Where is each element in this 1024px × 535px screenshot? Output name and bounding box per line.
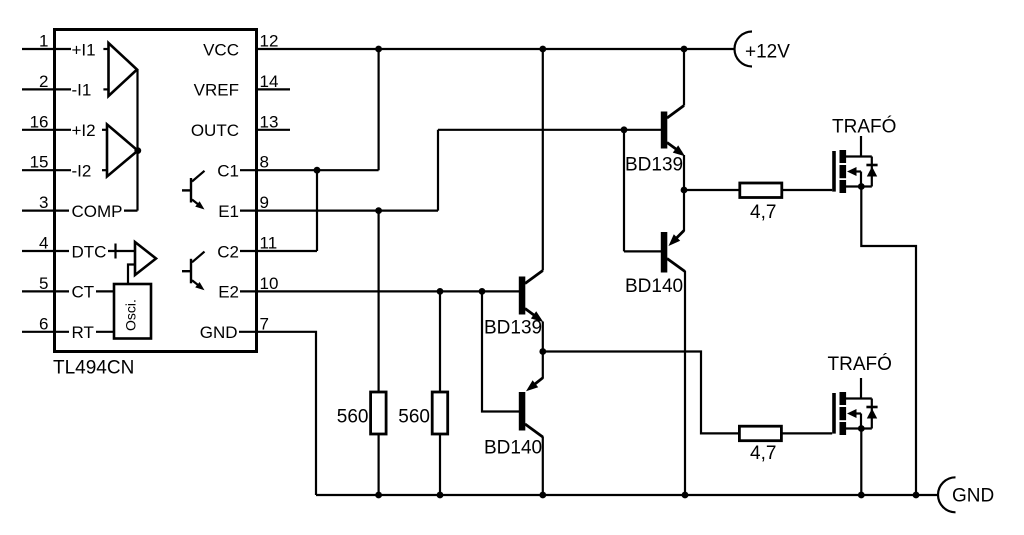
svg-text:GND: GND	[952, 485, 994, 506]
pin 4 wire (DTC)	[22, 250, 135, 252]
transistor Q6 BD140 (upper pair)	[661, 231, 685, 273]
junction E2 / lower base	[479, 288, 486, 295]
svg-text:15: 15	[30, 153, 49, 172]
junction E1 / R1	[375, 207, 382, 214]
wire lower BD140 base drop	[482, 291, 519, 411]
junction VCC / Q5 collector	[681, 46, 688, 53]
ground terminal GND	[938, 477, 956, 512]
pin 15 wire (-I2)	[22, 169, 71, 171]
svg-text:BD139: BD139	[484, 317, 542, 338]
transistor Q1 internal (C1/E1)	[182, 171, 205, 210]
junction E2 / R2	[437, 288, 444, 295]
pin 2 wire (-I1)	[22, 88, 71, 90]
wire pin 9 (E1)	[240, 210, 438, 212]
wire pin 7 (GND) to rail	[239, 332, 316, 495]
wire oscillator to DTC buffer	[128, 265, 135, 285]
svg-text:9: 9	[260, 193, 269, 212]
wire E1 riser	[437, 130, 439, 211]
pin 14 stub wire	[257, 88, 291, 90]
svg-text:14: 14	[260, 72, 279, 91]
wire pin 10 (E2)	[240, 290, 519, 292]
svg-text:-I1: -I1	[72, 81, 92, 100]
wire C2 tie vertical	[316, 170, 318, 251]
pin label CT	[69, 284, 96, 300]
svg-text:VREF: VREF	[194, 81, 239, 100]
DTC input tick bar	[114, 244, 116, 259]
wire Q4 collector to rail	[542, 437, 544, 496]
error amplifier 1	[109, 43, 138, 96]
junction C1/C2 tie	[314, 167, 321, 174]
svg-text:560: 560	[337, 406, 369, 427]
body diode M2	[867, 409, 877, 419]
op-amp U1 IC body TL494CN	[55, 30, 257, 352]
wire Q3 collector to VCC	[542, 49, 544, 271]
pin label RT	[69, 324, 96, 340]
pin label COMP	[69, 202, 124, 219]
resistor R3 4,7	[684, 189, 740, 191]
pin 13 stub wire	[257, 129, 291, 131]
svg-text:GND: GND	[200, 323, 238, 342]
svg-text:4: 4	[39, 234, 48, 253]
wire +I1 amp input tick	[103, 48, 108, 50]
DTC buffer triangle	[135, 242, 156, 275]
svg-text:RT: RT	[72, 323, 94, 342]
wire E1 to driver bases	[438, 129, 661, 131]
ground rail wire	[316, 494, 938, 496]
junction VCC / C1 riser	[375, 46, 382, 53]
svg-text:11: 11	[260, 234, 278, 253]
wire BD140 base	[624, 250, 661, 252]
svg-text:560: 560	[398, 406, 430, 427]
junction rail R1	[375, 492, 382, 499]
junction rail Q4 collector	[539, 492, 546, 499]
resistor R1 560	[371, 392, 387, 434]
body diode M1	[867, 167, 877, 177]
svg-text:7: 7	[260, 314, 269, 333]
svg-text:2: 2	[39, 72, 48, 91]
wire Q3 emitter down	[542, 322, 544, 352]
wire +I2 amp input tick	[102, 129, 107, 131]
svg-text:13: 13	[260, 112, 279, 131]
junction rail R2	[437, 492, 444, 499]
pin 3 wire (COMP)	[22, 210, 138, 212]
svg-text:+I1: +I1	[72, 40, 96, 59]
svg-text:TL494CN: TL494CN	[53, 358, 134, 379]
oscillator box	[114, 284, 151, 339]
svg-text:+I2: +I2	[72, 121, 96, 140]
junction rail M2 source	[858, 492, 865, 499]
junction amp outputs	[134, 147, 141, 154]
resistor R2 560	[432, 392, 448, 434]
svg-text:10: 10	[260, 274, 279, 293]
wire M2 source to rail	[860, 429, 862, 496]
svg-text:TRAFÓ: TRAFÓ	[832, 115, 896, 137]
mosfet M2 (lower)	[834, 392, 878, 435]
pin label DTC	[69, 243, 108, 259]
transistor Q4 BD140 (lower pair)	[519, 378, 543, 437]
junction M2 source	[858, 425, 865, 432]
wire -I2 amp input tick	[102, 169, 107, 171]
svg-text:BD140: BD140	[625, 276, 683, 297]
svg-text:5: 5	[39, 274, 48, 293]
svg-text:6: 6	[39, 314, 48, 333]
junction driver base tee	[621, 126, 628, 133]
svg-text:Osci.: Osci.	[123, 299, 139, 331]
svg-text:TRAFÓ: TRAFÓ	[828, 353, 892, 375]
error amplifier 2	[107, 124, 138, 176]
junction M1 source	[858, 183, 865, 190]
wire Q6 emitter up	[683, 190, 685, 231]
wire C1 up to VCC	[378, 49, 380, 170]
svg-text:16: 16	[30, 112, 49, 131]
svg-text:-I2: -I2	[72, 162, 92, 181]
mosfet M1 (upper)	[834, 150, 878, 193]
wire Q6 collector to rail	[684, 271, 686, 495]
wire M1 drain to TRAFO	[860, 136, 862, 157]
junction VCC / Q3 collector	[539, 46, 546, 53]
wire M1 source to ground rail	[861, 187, 916, 496]
wire Q4 emitter up	[542, 352, 544, 379]
svg-text:BD139: BD139	[625, 154, 683, 175]
wire base tie vertical	[623, 130, 625, 252]
svg-text:4,7: 4,7	[750, 202, 776, 223]
+12V supply terminal	[735, 32, 753, 67]
pin 6 wire (RT)	[22, 331, 114, 333]
transistor Q5 BD139 (upper pair)	[661, 106, 685, 157]
wire Q5 collector to VCC	[683, 49, 685, 106]
wire Q5 emitter down	[683, 155, 685, 190]
svg-text:4,7: 4,7	[750, 443, 776, 464]
svg-text:C1: C1	[217, 162, 239, 181]
pin 5 wire (CT)	[22, 290, 114, 292]
wire -I1 amp input tick	[103, 88, 108, 90]
junction rail Q6 collector	[682, 492, 689, 499]
junction rail M1 source return	[913, 492, 920, 499]
pin 1 wire (+I1)	[22, 48, 71, 50]
wire lower output to gate resistor	[543, 352, 740, 434]
svg-text:C2: C2	[217, 242, 239, 261]
svg-text:DTC: DTC	[72, 242, 107, 261]
svg-text:BD140: BD140	[484, 438, 542, 459]
wire pin 8 (C1)	[240, 169, 379, 171]
svg-text:8: 8	[260, 153, 269, 172]
junction push-pull output (upper)	[681, 187, 688, 194]
junction push-pull output (lower)	[539, 348, 546, 355]
svg-text:OUTC: OUTC	[191, 121, 239, 140]
pin 16 wire (+I2)	[22, 129, 71, 131]
svg-text:COMP: COMP	[72, 202, 123, 221]
wire amp outputs vertical	[136, 70, 138, 211]
svg-text:1: 1	[39, 32, 48, 51]
wire VCC rail pin12 to +12V	[257, 48, 735, 50]
svg-text:E1: E1	[218, 202, 239, 221]
resistor R4 4,7	[739, 426, 781, 441]
svg-text:12: 12	[260, 32, 279, 51]
wire M2 drain to TRAFO	[860, 378, 862, 399]
svg-text:+12V: +12V	[745, 42, 790, 63]
wire pin 11 (C2)	[240, 250, 317, 252]
transistor Q2 internal (C2/E2)	[182, 252, 205, 291]
svg-text:3: 3	[39, 193, 48, 212]
svg-text:VCC: VCC	[203, 40, 239, 59]
transistor Q3 BD139 (lower pair)	[519, 271, 544, 323]
svg-text:CT: CT	[72, 283, 95, 302]
svg-text:E2: E2	[218, 283, 239, 302]
